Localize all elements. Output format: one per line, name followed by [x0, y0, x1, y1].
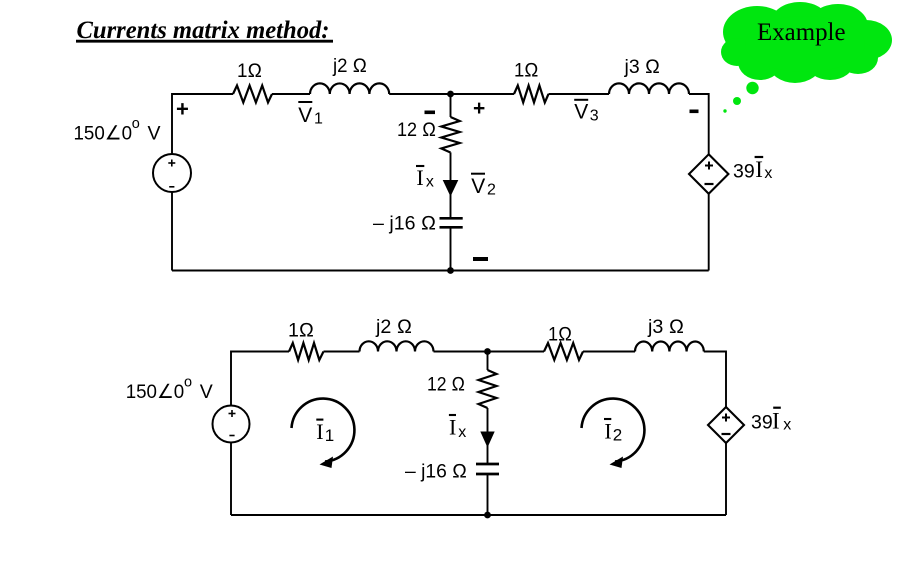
svg-text:39: 39: [733, 160, 755, 182]
wire capacitor to bottom node B: [450, 227, 452, 270]
dependent source D2 diamond: [708, 407, 744, 443]
title: Currents matrix method:: [76, 17, 333, 44]
mesh arrowhead I1: [320, 457, 334, 469]
svg-text:x: x: [783, 417, 791, 434]
mesh arrowhead I2: [610, 457, 624, 469]
svg-text:V: V: [200, 381, 213, 403]
mesh current arc I1: [292, 399, 355, 462]
label 150 angle 0 V (top): [74, 116, 161, 145]
svg-text:I: I: [604, 419, 611, 444]
svg-text:x: x: [458, 424, 466, 441]
middle branch: node A to 12ohm: [450, 94, 452, 117]
label 150 angle 0 V (bottom): [126, 374, 213, 403]
svg-text:o: o: [132, 116, 140, 132]
svg-text:j2 Ω: j2 Ω: [332, 55, 367, 77]
resistor R2 1ohm (top right): [514, 86, 549, 103]
wire left below source VS2: [230, 443, 232, 516]
label big minus near node B: [473, 257, 488, 261]
svg-text:j2 Ω: j2 Ω: [375, 316, 412, 338]
voltage source VS2 circle: [213, 406, 250, 443]
svg-text:I: I: [449, 415, 456, 440]
svg-text:V: V: [471, 175, 485, 198]
source VS2 minus symbol: [229, 435, 234, 437]
svg-text:– j16 Ω: – j16 Ω: [373, 213, 436, 235]
inductor L3 j2ohm (bottom): [360, 341, 434, 351]
svg-text:1Ω: 1Ω: [548, 324, 572, 346]
wire top-left segment: [172, 94, 233, 154]
voltage source VS1 circle: [153, 154, 191, 192]
resistor R6 12ohm (vertical bottom): [479, 370, 497, 408]
middle branch: node C to 12ohm: [487, 352, 489, 371]
cloud trail bubble 3: [723, 109, 726, 112]
thought-bubble cloud (Example): [721, 2, 892, 83]
resistor R4 1ohm (bottom left): [289, 343, 324, 360]
label minus right end: [690, 110, 699, 114]
svg-text:39: 39: [751, 412, 773, 434]
svg-text:+: +: [176, 97, 189, 122]
diamond D1 plus symbol: [705, 162, 713, 170]
svg-text:150∠0: 150∠0: [74, 123, 133, 145]
wire R2 to L2: [549, 93, 610, 95]
wire R4 to L3: [324, 351, 360, 353]
wire top-left of circuit 2: [231, 352, 289, 406]
label I1 with bar: [316, 419, 334, 445]
mesh current arc I2: [582, 399, 645, 462]
cloud trail bubble 1: [746, 82, 758, 94]
svg-text:V: V: [148, 123, 161, 145]
label 39Ix (top circuit): [733, 157, 772, 182]
resistor R3 12ohm (vertical): [441, 117, 459, 153]
svg-text:– j16 Ω: – j16 Ω: [405, 461, 467, 483]
svg-text:150∠0: 150∠0: [126, 381, 185, 403]
svg-text:1: 1: [314, 110, 323, 127]
dependent source D1 diamond: [689, 154, 728, 194]
svg-text:1Ω: 1Ω: [288, 320, 314, 342]
svg-text:V: V: [298, 104, 312, 127]
wire node C to R5: [488, 351, 545, 353]
current arrow Ix (bottom circuit): [480, 432, 494, 448]
label minus above 12ohm: [425, 111, 436, 115]
svg-text:12 Ω: 12 Ω: [397, 119, 436, 141]
capacitor C2 -j16ohm plate top: [476, 463, 499, 466]
capacitor C1 -j16ohm plate top: [440, 217, 463, 220]
svg-text:2: 2: [487, 182, 496, 199]
wire bottom of circuit 1: [172, 270, 709, 272]
wire R5 to L4: [583, 351, 635, 353]
resistor R5 1ohm (bottom right): [544, 343, 583, 360]
svg-text:3: 3: [590, 108, 599, 125]
label Ix with bar (top circuit): [416, 165, 434, 191]
inductor L2 j3ohm: [609, 83, 689, 94]
wire R1 to L1: [272, 93, 310, 95]
label Ix with bar (bottom circuit): [449, 415, 466, 441]
svg-text:I: I: [416, 165, 423, 190]
diamond D1 minus symbol: [705, 183, 714, 185]
svg-text:1Ω: 1Ω: [514, 59, 539, 81]
svg-text:I: I: [755, 157, 763, 182]
diamond D2 plus symbol: [722, 414, 730, 422]
cloud trail bubble 2: [733, 97, 741, 105]
svg-text:1: 1: [325, 426, 334, 445]
svg-text:1Ω: 1Ω: [237, 60, 262, 82]
svg-text:I: I: [772, 409, 780, 434]
label V2 with bar: [471, 174, 496, 199]
label V1 with bar: [298, 102, 323, 127]
wire L3 to node C: [434, 351, 488, 353]
wire capacitor C2 to node D: [487, 474, 489, 515]
node C junction dot: [484, 348, 491, 355]
label V3 with bar: [574, 100, 599, 125]
svg-text:12 Ω: 12 Ω: [427, 374, 465, 396]
wire bottom of circuit 2: [231, 514, 726, 516]
label 39Ix (bottom circuit): [751, 408, 791, 434]
node D junction dot: [484, 512, 491, 519]
svg-text:Example: Example: [757, 19, 846, 46]
svg-text:+: +: [473, 97, 485, 120]
current arrow Ix (top circuit): [443, 180, 459, 197]
svg-text:j3 Ω: j3 Ω: [647, 316, 684, 338]
svg-text:V: V: [574, 101, 588, 124]
svg-text:o: o: [184, 374, 192, 390]
svg-text:x: x: [764, 165, 772, 182]
wire left below source: [171, 192, 173, 271]
wire right below diamond D2: [725, 443, 727, 515]
resistor R1 1ohm (top left): [233, 86, 272, 103]
source VS1 minus symbol: [169, 186, 174, 188]
inductor L4 j3ohm (bottom): [635, 341, 704, 351]
capacitor C2 -j16ohm plate bottom: [476, 473, 499, 476]
capacitor C1 -j16ohm plate bottom: [440, 226, 463, 229]
source VS1 plus symbol: [168, 160, 175, 167]
wire 12ohm to capacitor: [450, 152, 452, 218]
wire 12ohm to capacitor C2: [487, 408, 489, 464]
svg-text:x: x: [426, 174, 434, 191]
svg-text:2: 2: [613, 426, 622, 445]
node B junction dot: [447, 267, 454, 274]
wire L1 to node A: [389, 93, 450, 95]
inductor L1 j2ohm: [310, 83, 389, 94]
wire right below diamond: [708, 194, 710, 271]
diamond D2 minus symbol: [722, 433, 731, 435]
wire node A to R2: [451, 93, 515, 95]
svg-text:j3 Ω: j3 Ω: [624, 56, 660, 78]
label I2 with bar: [604, 419, 622, 445]
svg-text:I: I: [316, 419, 323, 444]
wire top-right corner circuit 2: [704, 352, 726, 408]
wire top-right corner: [689, 94, 709, 154]
node A junction dot: [447, 91, 454, 98]
source VS2 plus symbol: [229, 410, 236, 417]
